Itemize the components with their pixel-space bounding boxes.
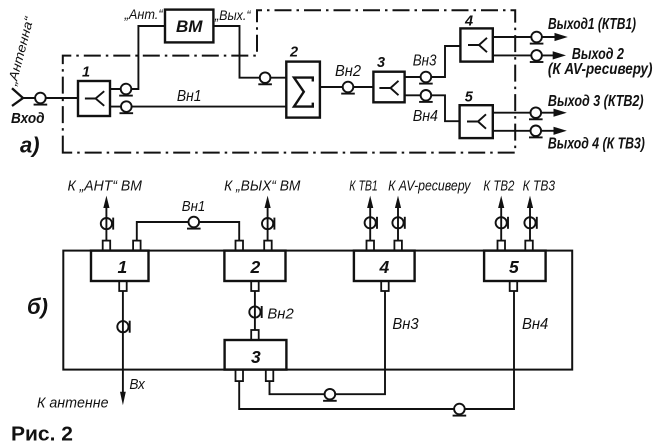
VCR unit BM xyxy=(165,10,213,43)
cable Вх to antenna with arrow xyxy=(122,291,124,394)
wire: output 4 with arrow xyxy=(493,130,554,132)
svg-text:б): б) xyxy=(27,294,48,319)
svg-text:5: 5 xyxy=(465,90,474,106)
splitter symbol in block 3 xyxy=(379,81,398,95)
svg-text:(К AV-ресиверу): (К AV-ресиверу) xyxy=(548,61,653,78)
connector (ТВ3) xyxy=(524,217,536,229)
wire: block3 top output, cable Вн3 to block 4 xyxy=(405,46,461,77)
wire+arrow to ТВ3 xyxy=(529,206,531,241)
svg-text:3: 3 xyxy=(251,347,261,367)
unit block 4 (b) with stubs xyxy=(354,241,415,291)
svg-text:1: 1 xyxy=(118,257,128,277)
splitter block 1 xyxy=(78,81,110,116)
connector X8 xyxy=(530,32,544,44)
antenna symbol xyxy=(12,88,23,106)
connector X5 xyxy=(341,82,355,94)
unit block 2 (b) with stubs xyxy=(224,241,285,291)
svg-text:К „АНТ“ ВМ: К „АНТ“ ВМ xyxy=(68,178,143,194)
svg-text:К ТВ2: К ТВ2 xyxy=(483,178,514,194)
connector X10 xyxy=(529,107,543,119)
wire: block3 bottom output, cable Вн4 to block 5 xyxy=(405,95,460,121)
wire: block1 top output to BM "Ант." xyxy=(110,26,165,89)
chassis outline (diagram b) xyxy=(63,251,572,370)
connector X3 xyxy=(120,101,134,113)
cable Вн4 (b): block3 to block5 xyxy=(239,291,514,409)
wire: antenna to block 1 input xyxy=(23,97,78,99)
svg-text:4: 4 xyxy=(379,257,390,277)
connector (АНТ ВМ) xyxy=(101,218,113,230)
wire: block2 output to block3, cable Вн2 xyxy=(320,86,374,88)
svg-text:4: 4 xyxy=(464,14,473,30)
svg-text:Вн1: Вн1 xyxy=(177,88,202,105)
svg-text:Вн3: Вн3 xyxy=(392,316,419,333)
connector (ВЫХ ВМ) xyxy=(262,218,274,230)
wire+arrow to ТВ1 xyxy=(369,206,371,241)
svg-text:Выход 3 (КТВ2): Выход 3 (КТВ2) xyxy=(548,93,644,110)
connector X11 xyxy=(529,126,543,138)
wire+arrow to АНТ ВМ xyxy=(105,206,107,241)
splitter symbol in block 5 xyxy=(467,114,486,128)
svg-text:„Вых.“: „Вых.“ xyxy=(214,8,252,23)
svg-text:Вн1: Вн1 xyxy=(182,199,206,215)
connector X4 xyxy=(258,72,272,84)
wire: output 3 with arrow xyxy=(493,112,554,114)
arrowhead output 2 xyxy=(553,51,566,59)
svg-text:Вход: Вход xyxy=(11,110,45,127)
wire: BM "Вых." to block 2 xyxy=(213,26,286,78)
svg-text:К AV-ресиверу: К AV-ресиверу xyxy=(388,178,471,194)
cable Вн2 (b) xyxy=(254,291,256,330)
svg-text:3: 3 xyxy=(377,55,385,71)
splitter block 5 xyxy=(460,105,493,138)
svg-text:Вн3: Вн3 xyxy=(413,52,437,69)
connector X9 xyxy=(530,50,544,62)
svg-text:Выход1 (КТВ1): Выход1 (КТВ1) xyxy=(548,16,636,33)
splitter symbol in block 1 xyxy=(85,91,104,106)
connector on Вн4 (b) xyxy=(453,404,467,416)
connector (ТВ1) xyxy=(365,217,377,229)
unit block 3 (b) with stubs xyxy=(225,330,287,381)
connector (ТВ2) xyxy=(496,217,508,229)
connector X6 xyxy=(419,72,433,84)
dash-dot enclosure frame of unit (diagram a) xyxy=(63,10,515,152)
svg-text:Вн2: Вн2 xyxy=(267,306,294,323)
connector X1 (input) xyxy=(34,93,48,105)
connector X2 xyxy=(119,84,133,96)
sigma symbol xyxy=(294,78,313,107)
wire: output 1 with arrow xyxy=(493,36,556,38)
svg-text:ВМ: ВМ xyxy=(176,17,203,36)
svg-text:5: 5 xyxy=(509,257,519,277)
svg-text:1: 1 xyxy=(82,65,90,81)
splitter symbol in block 4 xyxy=(468,38,487,52)
wire+arrow to ТВ2 xyxy=(500,206,502,241)
svg-text:Вх: Вх xyxy=(129,376,145,393)
splitter block 3 xyxy=(373,72,404,103)
svg-text:Рис. 2: Рис. 2 xyxy=(11,423,73,445)
connector on Вн3 (b) xyxy=(323,389,337,401)
svg-text:а): а) xyxy=(20,133,40,158)
arrowhead output 1 xyxy=(555,33,568,41)
connector (AV) xyxy=(392,217,404,229)
connector X7 xyxy=(419,90,433,102)
wire: output 2 with arrow xyxy=(493,54,554,56)
arrowhead output 3 xyxy=(554,109,567,117)
svg-text:К антенне: К антенне xyxy=(37,396,109,412)
arrowhead output 4 xyxy=(554,127,567,135)
svg-text:2: 2 xyxy=(250,257,261,277)
svg-text:Вн2: Вн2 xyxy=(335,63,361,80)
svg-text:2: 2 xyxy=(289,45,298,61)
svg-text:Выход 4 (К ТВ3): Выход 4 (К ТВ3) xyxy=(548,136,645,153)
cable Вн1 bridge block1-block2 xyxy=(137,222,239,241)
cable Вн3 (b): block3 to block4 xyxy=(270,291,386,394)
summing block 2 xyxy=(286,62,320,118)
svg-text:„Ант.“: „Ант.“ xyxy=(124,7,164,22)
wire: block1 bottom output, cable Вн1 to block2 xyxy=(110,106,286,108)
connector on Вх xyxy=(117,321,129,333)
unit block 1 (b) with stubs xyxy=(91,241,149,291)
svg-text:Вн4: Вн4 xyxy=(522,316,549,333)
connector on Вн2 xyxy=(249,306,261,318)
splitter block 4 xyxy=(460,28,492,61)
svg-text:Вн4: Вн4 xyxy=(413,108,439,125)
connector on Вн1 xyxy=(187,217,201,229)
unit block 5 (b) with stubs xyxy=(484,241,545,291)
svg-text:К ТВ1: К ТВ1 xyxy=(349,178,378,194)
wire+arrow to ВЫХ ВМ xyxy=(267,206,269,241)
svg-text:К „ВЫХ“ ВМ: К „ВЫХ“ ВМ xyxy=(224,178,301,194)
svg-text:К ТВ3: К ТВ3 xyxy=(523,178,555,194)
wire+arrow to AV-ресивер xyxy=(397,206,399,241)
